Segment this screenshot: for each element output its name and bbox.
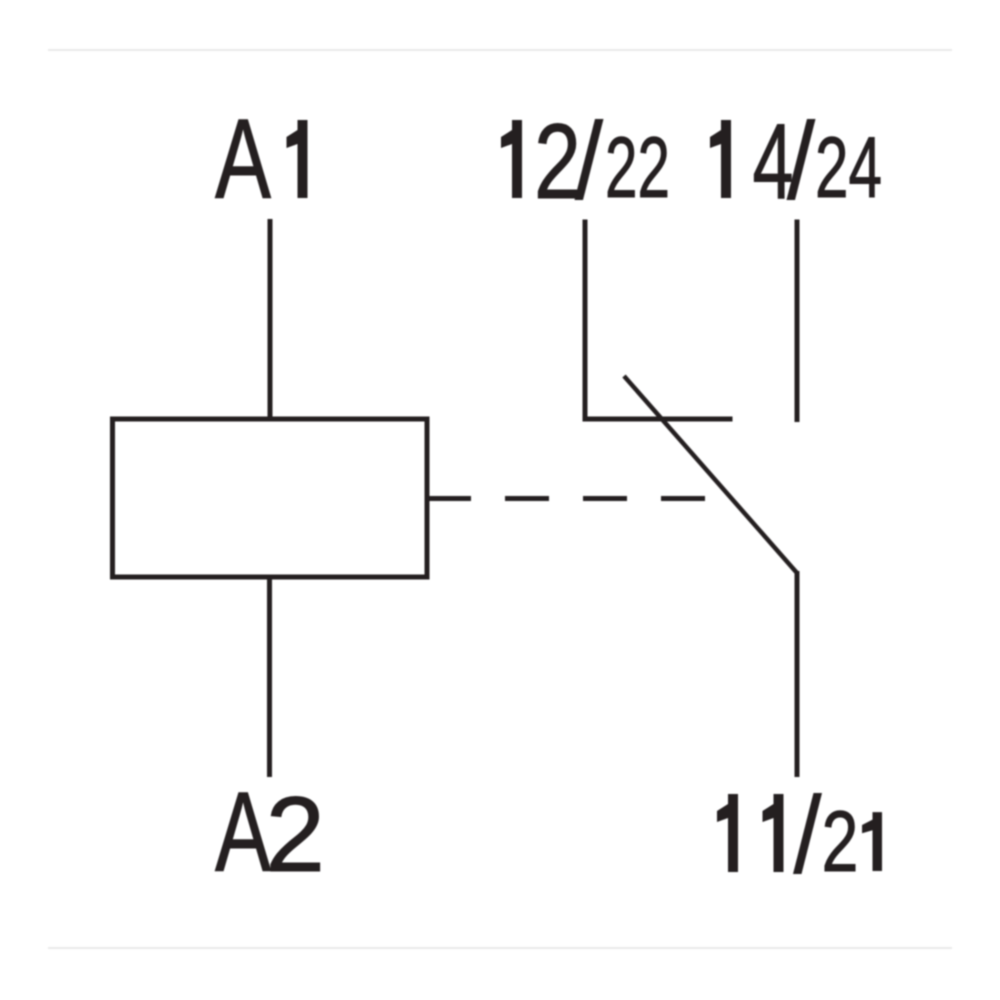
svg-text:2: 2: [266, 774, 326, 894]
wire 14/24 terminal: [795, 220, 800, 423]
terminal label 14/24: [710, 101, 882, 221]
contact arm (changeover switch blade): [624, 376, 797, 573]
coil K1 (relay coil rectangle): [113, 419, 428, 577]
top rule: [48, 49, 952, 51]
wire coil to A2: [267, 578, 272, 777]
svg-text:4: 4: [753, 101, 794, 221]
terminal label 11/21: [717, 793, 882, 890]
svg-text:22: 22: [605, 120, 670, 216]
fixed contact seat: [583, 417, 733, 422]
wire 11/21 terminal: [795, 571, 800, 777]
mechanical link (dashed) coil to contact: [427, 496, 707, 501]
terminal label A2: [215, 769, 325, 896]
svg-text:A: A: [215, 769, 271, 896]
bottom rule: [48, 947, 952, 949]
wire A1 to coil: [268, 219, 273, 418]
terminal label 12/22: [501, 101, 670, 221]
wire 12/22 terminal: [583, 220, 588, 420]
svg-text:24: 24: [815, 120, 882, 216]
svg-text:A: A: [215, 96, 271, 223]
terminal label A1: [215, 96, 308, 223]
svg-text:2: 2: [534, 101, 581, 221]
svg-text:2: 2: [822, 794, 859, 890]
